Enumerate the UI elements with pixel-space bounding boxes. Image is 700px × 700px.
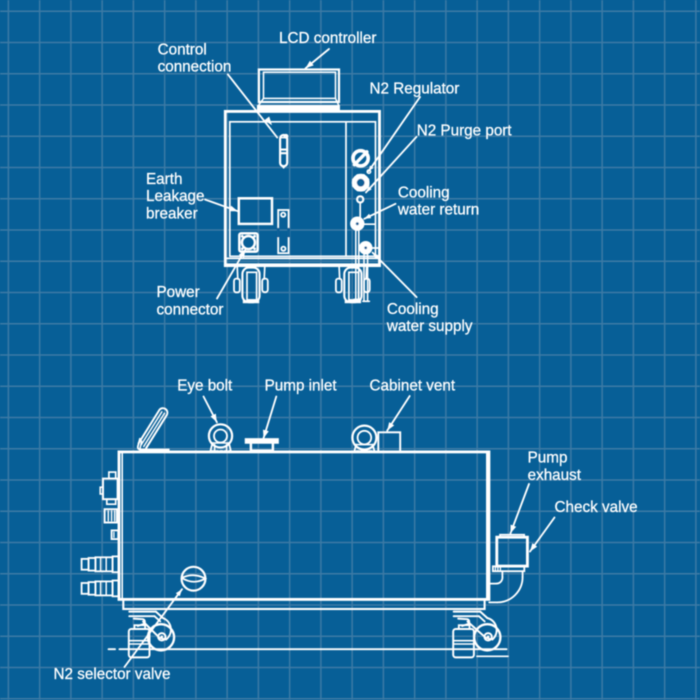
floor line right lower segment [477, 655, 508, 657]
supply pipe end cap [363, 300, 369, 302]
pump inlet component [246, 439, 278, 443]
panel strip edge gaps [277, 228, 280, 238]
floor line [109, 648, 115, 650]
pump body [119, 452, 489, 600]
svg-text:LCD controller: LCD controller [279, 30, 376, 47]
control connector capsule [280, 135, 287, 166]
rear left caster [236, 266, 239, 279]
LCD controller base flange [258, 106, 340, 112]
svg-text:Eye bolt: Eye bolt [177, 378, 233, 395]
svg-text:N2 Regulator: N2 Regulator [370, 81, 460, 98]
leader to earth leakage breaker [205, 200, 238, 212]
cooling water supply port [359, 241, 373, 255]
svg-text:water return: water return [397, 202, 479, 219]
N2 regulator knurled ring [355, 177, 367, 189]
leader to pump exhaust [511, 484, 530, 533]
svg-text:Leakage: Leakage [146, 188, 205, 205]
leader to LCD controller [306, 49, 330, 68]
svg-text:water supply: water supply [386, 318, 473, 335]
small side nub [112, 530, 119, 539]
capsule top cap line [280, 137, 287, 139]
side vent grille [105, 509, 117, 522]
pump body left inner line [121, 452, 123, 600]
bottom right caster [454, 611, 481, 613]
hose fitting lower [113, 581, 119, 597]
connector panel strip [278, 210, 288, 253]
cabinet vent component [352, 426, 376, 450]
power connector corner screws [241, 235, 244, 238]
svg-text:Pump inlet: Pump inlet [265, 378, 338, 395]
leader to cabinet vent [387, 396, 410, 431]
capsule top-right notch circle [284, 135, 287, 138]
check valve box [500, 535, 524, 538]
svg-text:Control: Control [158, 42, 207, 59]
cooling water return port [350, 217, 364, 231]
svg-text:N2 Purge port: N2 Purge port [417, 122, 513, 139]
pump body right inner line [486, 452, 488, 600]
svg-text:Pump: Pump [528, 450, 568, 467]
panel strip bottom screw [281, 247, 285, 251]
side connector block [103, 479, 118, 500]
LCD controller housing inner box [264, 72, 336, 98]
supply down pipe [363, 254, 365, 301]
supply port stub to panel [372, 247, 379, 249]
rear right caster [338, 266, 341, 279]
leader to power connector [217, 249, 246, 298]
earth leakage breaker box [239, 198, 272, 224]
cabinet base bottom edge [225, 263, 379, 266]
leader to cooling water return [364, 204, 395, 219]
leader to pump inlet [264, 397, 277, 439]
cabinet base upper line [225, 257, 379, 259]
LCD flange right slant [336, 98, 340, 106]
cabinet inner panel [230, 122, 376, 256]
eye bolt component [209, 424, 232, 447]
svg-text:Power: Power [157, 284, 200, 301]
svg-text:breaker: breaker [146, 205, 198, 222]
exhaust elbow pipe [501, 571, 503, 577]
N2 regulator shutoff knob [353, 151, 368, 166]
cabinet outer body [225, 111, 379, 265]
return down pipe [355, 231, 357, 300]
leader to cooling water supply [373, 253, 417, 298]
leader to eye bolt [204, 397, 217, 423]
purge to return pipe [359, 202, 361, 217]
LCD flange left slant [258, 98, 263, 106]
power connector socket circle [242, 236, 255, 249]
leader to N2 purge port [366, 137, 417, 193]
return pipe end cap [354, 299, 361, 301]
knob slash [354, 152, 367, 165]
svg-text:exhaust: exhaust [528, 467, 582, 484]
leader to N2 regulator [369, 97, 420, 171]
knurl bumps [366, 184, 370, 188]
LCD controller housing outer box [259, 70, 339, 103]
return port stub to panel [364, 223, 375, 225]
svg-text:connection: connection [158, 59, 232, 76]
N2 selector valve symbol [182, 567, 206, 591]
bottom left caster [129, 611, 156, 613]
cabinet panel divider [345, 122, 347, 256]
svg-text:Cooling: Cooling [398, 184, 450, 201]
leader to control connection [228, 74, 277, 137]
svg-text:connector: connector [157, 301, 224, 318]
power connector body [239, 233, 257, 251]
leader to N2 selector valve [125, 589, 183, 667]
tilt handle lever [139, 408, 168, 448]
N2 purge port circle [357, 196, 363, 202]
capsule middle band [280, 149, 287, 151]
svg-text:Cooling: Cooling [387, 301, 439, 318]
panel strip top screw [281, 213, 285, 217]
svg-text:Check valve: Check valve [555, 499, 638, 516]
pump base frame [123, 599, 484, 609]
svg-text:Earth: Earth [146, 171, 182, 188]
capsule bottom tip [282, 166, 286, 168]
hose fitting upper [113, 556, 119, 572]
svg-text:N2 selector valve: N2 selector valve [54, 666, 171, 683]
leader to check valve [530, 518, 555, 552]
svg-text:Cabinet vent: Cabinet vent [370, 378, 456, 395]
